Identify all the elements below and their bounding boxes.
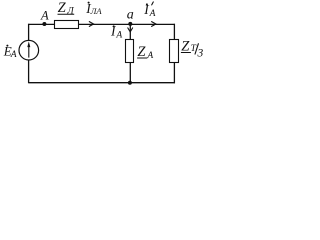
svg-text:a: a: [127, 7, 134, 22]
svg-text:A: A: [115, 31, 122, 41]
svg-text:ЛА: ЛА: [90, 6, 103, 16]
svg-text:Л: Л: [66, 6, 74, 16]
svg-text:A: A: [40, 9, 49, 23]
svg-text:3: 3: [197, 48, 204, 60]
svg-text:A: A: [149, 9, 156, 19]
svg-text:A: A: [146, 51, 153, 61]
svg-text:A: A: [10, 50, 17, 60]
